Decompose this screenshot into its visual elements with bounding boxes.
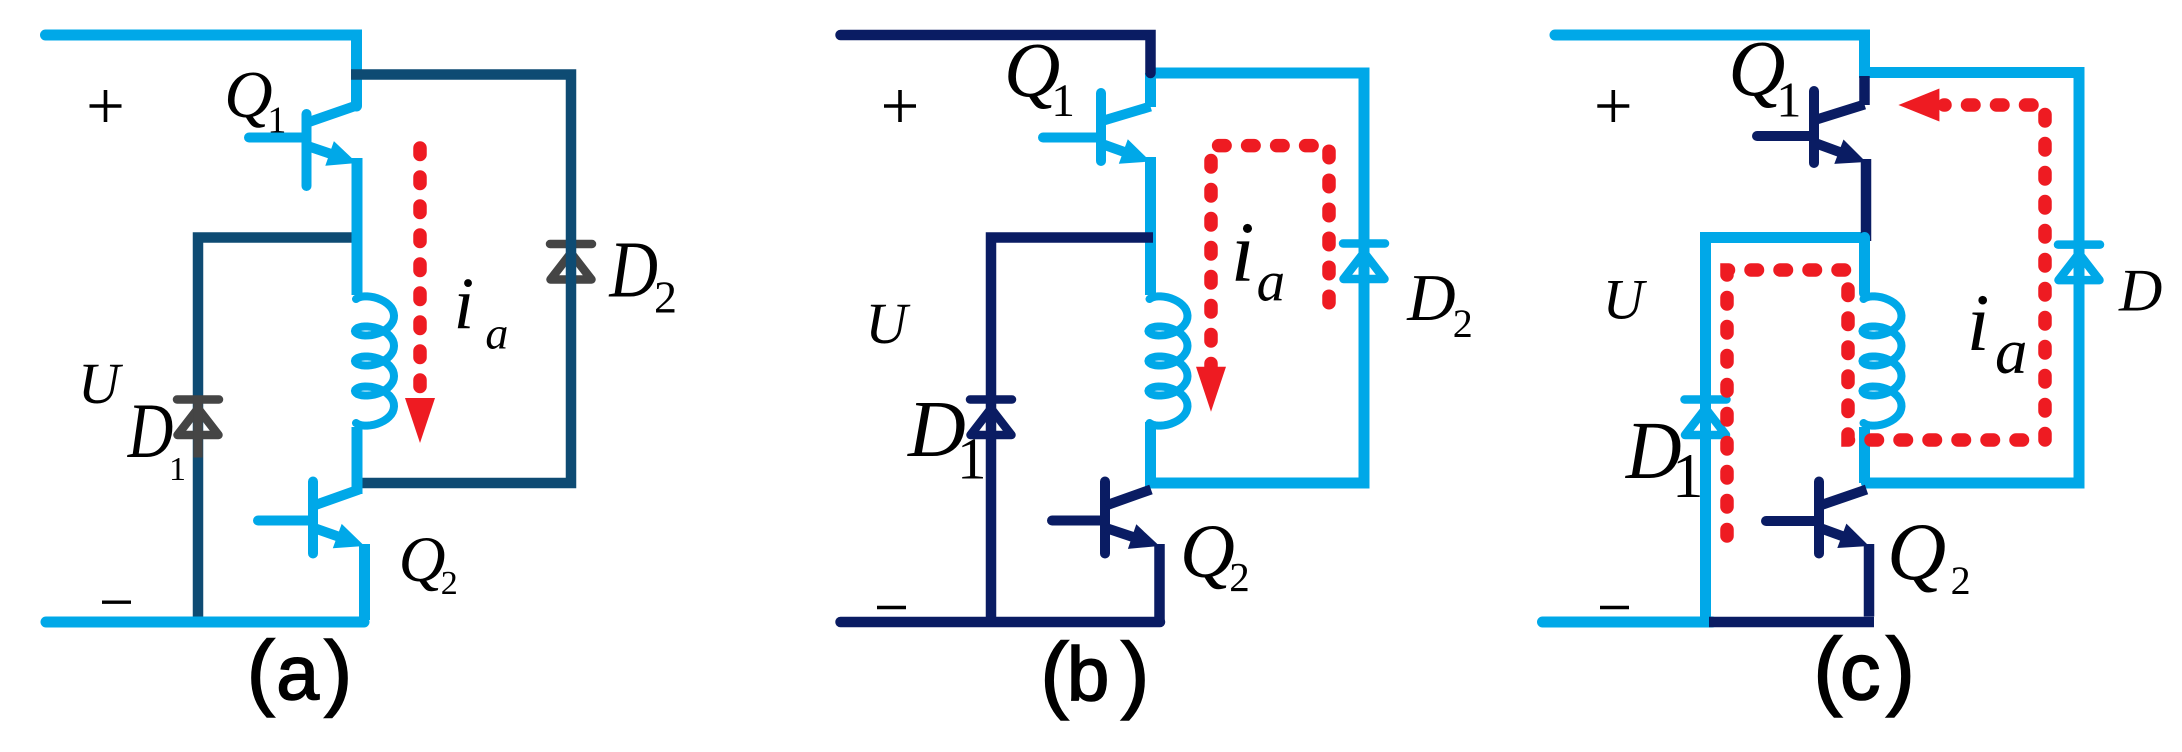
inductor La (a) — [355, 296, 394, 425]
svg-text:1: 1 — [1776, 72, 1801, 128]
transistor Q2 (b) — [1052, 482, 1160, 554]
diode D (c) — [2058, 241, 2100, 303]
svg-text:D: D — [127, 387, 173, 474]
svg-text:(: ( — [247, 624, 275, 718]
svg-text:(: ( — [1813, 621, 1842, 718]
svg-text:D: D — [2118, 257, 2162, 323]
minus terminal (b) — [877, 606, 906, 609]
svg-text:2: 2 — [654, 271, 677, 322]
transistor Q2 (c) — [1766, 482, 1869, 554]
wire: Q1 emitter down navy (c) — [1861, 159, 1872, 241]
svg-text:U: U — [1603, 269, 1648, 332]
minus terminal (a) — [102, 601, 131, 604]
svg-text:U: U — [865, 291, 911, 356]
plus terminal (c) — [1597, 90, 1629, 122]
svg-text:i: i — [454, 264, 475, 346]
svg-text:2: 2 — [1229, 554, 1250, 600]
svg-text:(: ( — [1040, 627, 1068, 722]
wire: top DC rail + D branch light blue (c) — [1555, 35, 2079, 483]
svg-text:): ) — [1121, 627, 1149, 722]
svg-text:1: 1 — [957, 425, 987, 491]
svg-text:i: i — [1967, 277, 1990, 368]
diode D1 (a) — [177, 396, 219, 458]
wire: emitter to inductor (b) — [1145, 157, 1156, 295]
wire: D2 branch teal loop (a) — [351, 75, 571, 484]
wire: top DC rail (b) — [841, 35, 1151, 73]
wire: bottom DC rail (b) — [841, 617, 1161, 628]
transistor Q1 (c) — [1757, 91, 1866, 164]
current path ia dashed loop (b) — [1196, 146, 1329, 412]
wire: inductor to Q2 collector node (a) — [352, 427, 363, 494]
wire: emitter to inductor (a) — [352, 158, 363, 295]
svg-text:D: D — [1406, 261, 1455, 335]
wire: bottom rail light blue left (c) — [1543, 617, 1713, 628]
svg-text:b: b — [1067, 632, 1109, 717]
svg-text:1: 1 — [267, 99, 286, 141]
wire: D2 branch light blue loop (b) — [1147, 73, 1364, 483]
plus terminal (b) — [884, 90, 916, 122]
wire: inductor to Q2 node (c) — [1859, 427, 1870, 483]
svg-text:): ) — [1886, 621, 1915, 718]
wire: collector stub (b) — [1145, 73, 1156, 107]
wire: mid-left light blue (c) — [1706, 238, 1867, 619]
svg-text:1: 1 — [1051, 75, 1075, 127]
svg-text:Q: Q — [224, 58, 272, 132]
svg-text:Q: Q — [1887, 506, 1946, 597]
svg-text:Q: Q — [399, 524, 446, 596]
svg-text:2: 2 — [441, 565, 458, 602]
svg-text:1: 1 — [1672, 441, 1704, 511]
current path ia dashed arrow (a) — [405, 148, 435, 443]
svg-text:): ) — [324, 624, 352, 718]
svg-text:a: a — [1995, 316, 2028, 388]
inductor La (b) — [1149, 296, 1188, 425]
svg-text:i: i — [1231, 204, 1255, 300]
inductor La (c) — [1863, 296, 1902, 425]
svg-text:c: c — [1840, 627, 1881, 717]
transistor Q1 (b) — [1043, 93, 1151, 164]
transistor Q2 (a) — [258, 482, 365, 554]
wire: mid-left to D1 branch (a) — [198, 238, 357, 619]
svg-text:D: D — [609, 225, 658, 315]
diode D1 (c) — [1685, 396, 1727, 458]
svg-text:1: 1 — [169, 451, 186, 488]
wire: bottom rail navy right (c) — [1709, 617, 1874, 628]
wire: node to inductor (c) — [1859, 238, 1870, 294]
wire: bottom DC rail (a) — [46, 617, 364, 628]
diode D1 (b) — [970, 396, 1012, 458]
svg-text:2: 2 — [1453, 301, 1473, 346]
minus terminal (c) — [1600, 606, 1629, 609]
diode D2 (a) — [550, 240, 592, 302]
plus terminal (a) — [90, 90, 122, 122]
svg-text:a: a — [276, 631, 319, 717]
diode D2 (b) — [1343, 240, 1385, 302]
wire: Q2 emitter down (a) — [359, 544, 370, 620]
svg-text:a: a — [485, 307, 508, 358]
svg-text:U: U — [78, 351, 124, 416]
wire: Q2 emitter down (b) — [1154, 544, 1165, 620]
current path ia dashed loop (c) — [1727, 89, 2045, 537]
wire: Q2 emitter down navy (c) — [1864, 544, 1875, 617]
svg-text:2: 2 — [1951, 558, 1971, 603]
wire: collector stub navy (c) — [1859, 76, 1870, 105]
transistor Q1 (a) — [249, 106, 357, 187]
wire: top DC rail (a) — [46, 35, 357, 106]
svg-text:a: a — [1257, 250, 1286, 313]
wire: mid-left navy (b) — [991, 238, 1153, 619]
svg-text:Q: Q — [1180, 510, 1235, 594]
